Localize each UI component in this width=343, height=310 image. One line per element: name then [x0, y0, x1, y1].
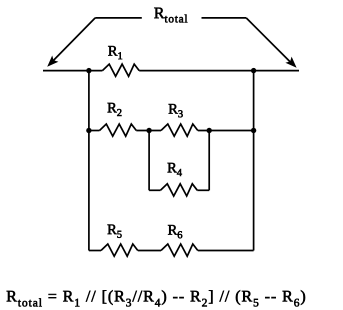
node R3 right junction [207, 128, 212, 133]
wire Rtotal pointer right horizontal [202, 17, 247, 19]
wire row2 right segment [198, 130, 254, 132]
resistor R2 [100, 124, 137, 136]
wire R4 loop left vertical [148, 131, 150, 191]
wire top rail left segment [43, 70, 102, 72]
wire R4 loop left lead [149, 189, 160, 191]
node top-left junction [86, 68, 91, 73]
label R6 [168, 225, 182, 238]
wire right vertical bus [253, 71, 255, 251]
wire row2 left lead [89, 130, 100, 132]
node R3 left junction [146, 128, 151, 133]
arrowhead right (to right end of top rail) [285, 57, 296, 68]
wire bottom rail middle segment [138, 250, 161, 252]
wire Rtotal pointer left diagonal [52, 18, 96, 63]
arrowhead left (to left end of top rail) [47, 56, 58, 67]
wire Rtotal pointer right diagonal [246, 18, 292, 64]
node top-right junction [251, 68, 256, 73]
node row2 left junction [86, 128, 91, 133]
resistor R1 [102, 64, 139, 76]
wire Rtotal pointer left horizontal [95, 17, 142, 19]
label Rtotal (top) [154, 8, 187, 23]
wire bottom rail right segment [198, 250, 254, 252]
wire top rail right segment [139, 70, 299, 72]
label R3 [169, 104, 183, 117]
node row2 right junction [251, 128, 256, 133]
label R4 [168, 163, 182, 176]
label R2 [108, 103, 122, 116]
wire left vertical bus [88, 71, 90, 251]
wire row2 middle segment [136, 130, 161, 132]
wire bottom rail left lead [89, 250, 101, 252]
resistor R3 [161, 124, 198, 136]
label equation Rtotal = R1 // [(R3//R4) -- R2] // (R5 -- R6) [7, 290, 305, 306]
wire R4 loop right lead [197, 189, 209, 191]
label R5 [108, 225, 122, 238]
label R1 [108, 46, 122, 59]
resistor R5 [101, 244, 138, 256]
wire R4 loop right vertical [208, 131, 210, 191]
resistor R6 [161, 244, 198, 256]
resistor R4 [161, 184, 198, 196]
